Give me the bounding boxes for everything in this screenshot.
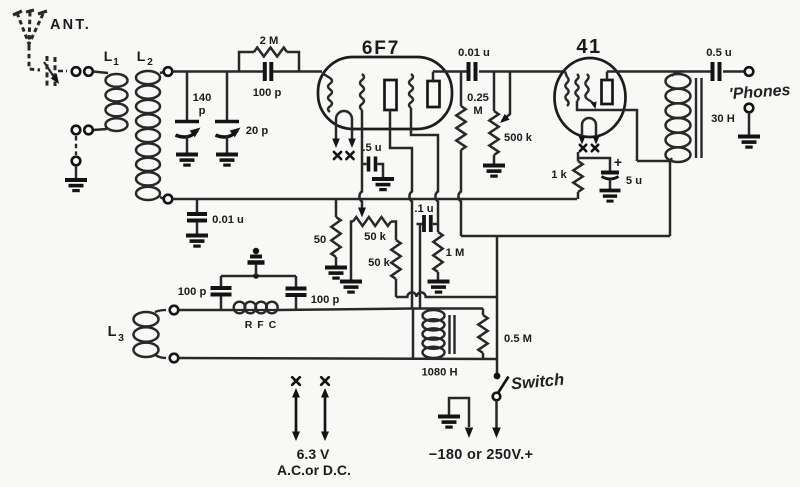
wire grid3 lead to coupling cap (411, 108, 438, 232)
wire B minus rail2 (461, 235, 670, 238)
svg-text:100 p: 100 p (178, 286, 207, 298)
wire grid2 bracket 41 (577, 101, 595, 110)
capacitor 100p left (220, 296, 223, 310)
core lines 1080H (448, 315, 450, 354)
ground B minus (438, 415, 460, 419)
svg-text:0.5 u: 0.5 u (706, 47, 732, 59)
wire rail L2 bottom to 1k cathode (173, 198, 578, 201)
wire top rail grid (173, 70, 240, 73)
svg-text:0.01 u: 0.01 u (458, 47, 490, 59)
wire W1 to B plus riser with hops (396, 292, 497, 297)
heater 41 (582, 118, 596, 132)
capacitor .5u bypass (362, 163, 367, 166)
svg-text:ANT.: ANT. (50, 17, 91, 33)
trimmer capacitor antenna series (47, 56, 55, 87)
resistor 50 ohm (335, 199, 338, 217)
grid G3 41 (585, 74, 588, 99)
capacitor 0.01u L2 bypass (196, 199, 199, 212)
svg-text:100 p: 100 p (253, 87, 282, 99)
wire antenna to L1 (93, 72, 108, 74)
grid G1 41 (565, 77, 568, 106)
node L2 top terminal (160, 72, 164, 73)
ground inverted chassis (253, 248, 259, 254)
wire 41 plate to phones cap (607, 70, 711, 73)
resistor 0.5M (482, 309, 485, 316)
transformer 1080H primary coil (423, 310, 445, 321)
wire grid entry 41 (565, 72, 567, 78)
svg-text:L: L (104, 48, 113, 64)
svg-text:500 k: 500 k (504, 132, 533, 144)
wire grid2 down to pot wiper (359, 110, 362, 209)
ground antenna coil (65, 178, 87, 182)
wire plate2 up to output rail (432, 72, 435, 82)
svg-text:1080 H: 1080 H (421, 367, 457, 379)
variable capacitor 140p (186, 72, 189, 121)
capacitor 100p right (295, 296, 298, 310)
svg-text:L: L (137, 48, 146, 64)
svg-text:2 M: 2 M (260, 35, 279, 47)
svg-text:100 p: 100 p (311, 294, 340, 306)
choke 30H coil (672, 71, 683, 76)
wire 1080H left riser (412, 309, 415, 358)
plate P2 6F7 (428, 81, 440, 107)
resistor 0.25M (460, 72, 463, 107)
svg-text:0.5 M: 0.5 M (504, 333, 532, 345)
terminal pair antenna input (72, 67, 81, 76)
ground phones (738, 135, 760, 139)
svg-text:0.25: 0.25 (467, 92, 489, 104)
plate P 41 (602, 80, 613, 104)
terminal phones top (745, 67, 754, 76)
resistor 1k bias (573, 161, 582, 192)
core lines 30H (695, 78, 697, 158)
grid G3 6F7 (409, 74, 413, 108)
ground 50k pot (340, 280, 362, 284)
capacitor .1u coupling (417, 223, 424, 226)
terminal pair L1 ground side (72, 126, 81, 135)
ground 1M (428, 280, 450, 284)
svg-text:50 k: 50 k (364, 231, 387, 243)
svg-text:1: 1 (113, 57, 119, 68)
switch lever (498, 377, 509, 394)
svg-text:41: 41 (576, 36, 601, 58)
heater supply arrows 6.3V (292, 377, 300, 385)
capacitor 100p grid (263, 62, 267, 81)
potentiometer 500k volume (493, 72, 496, 112)
svg-text:0.01 u: 0.01 u (212, 214, 244, 226)
svg-text:20 p: 20 p (246, 125, 269, 137)
antenna ANT (17, 12, 43, 46)
svg-text:50 k: 50 k (368, 257, 391, 269)
heater x marks 41 (580, 145, 586, 151)
wire B plus riser to switch (496, 236, 499, 376)
svg-text:5 u: 5 u (626, 175, 642, 187)
grid G2 41 (575, 74, 578, 101)
wire switch to B plus arrow (495, 401, 498, 429)
resistor 1M grid leak (433, 232, 442, 272)
ground 500k (483, 164, 505, 168)
wire L3 bottom to switch riser (179, 358, 498, 359)
coil RFC (234, 302, 246, 314)
capacitor 5u electrolytic (601, 171, 619, 175)
potentiometer 50k horizontal (353, 217, 391, 226)
tube 41 envelope U2 (555, 58, 626, 137)
coil L1 (106, 74, 128, 87)
resistor 50k lower (391, 240, 400, 279)
wiper arrow 500k (502, 72, 510, 122)
plate P1 6F7 (385, 80, 397, 110)
capacitor 0.5u phones (711, 62, 715, 81)
resistor R 2M grid leak (239, 52, 254, 72)
node L2 bottom terminal (160, 197, 164, 199)
svg-text:140: 140 (193, 92, 212, 104)
wire plate 41 up to output (606, 72, 609, 81)
svg-text:p: p (199, 105, 206, 117)
svg-text:A.C.or D.C.: A.C.or D.C. (277, 462, 351, 478)
svg-text:1 k: 1 k (551, 169, 567, 181)
terminal L3 bottom (170, 354, 179, 363)
wire B minus bracket (449, 398, 469, 427)
svg-text:.5 u: .5 u (362, 142, 381, 154)
svg-text:.1 u: .1 u (414, 203, 433, 215)
svg-text:L: L (108, 324, 117, 340)
cathode arrow 41 (587, 99, 595, 106)
wire RFC to 1080H top (278, 309, 413, 311)
terminal L3 top (170, 306, 179, 315)
wire cathode to 1k and 5u (577, 152, 580, 161)
wire plate2 rail to 41 grid (433, 70, 467, 73)
grid G2 6F7 (360, 74, 364, 110)
ground 0.01u (186, 234, 208, 238)
svg-text:R F C: R F C (245, 319, 277, 331)
wire 1080H top (413, 307, 483, 310)
svg-text:6.3 V: 6.3 V (297, 446, 330, 462)
capacitor 0.01u interstage (467, 62, 471, 81)
wire choke bottom junction (637, 161, 670, 236)
wire L3 top to RFC (179, 309, 235, 312)
svg-text:+: + (614, 154, 622, 170)
svg-text:6F7: 6F7 (362, 38, 400, 59)
svg-text:50: 50 (314, 234, 326, 246)
wire cathode tap bracket (221, 275, 296, 278)
svg-text:3: 3 (118, 332, 124, 344)
svg-text:1 M: 1 M (446, 247, 465, 259)
coil L2 (136, 71, 160, 84)
tube 6F7 envelope U1 (318, 57, 452, 129)
heater 6F7 with leads (336, 111, 352, 128)
terminal phones bottom (745, 104, 754, 113)
wire plate1 lead down (390, 110, 412, 308)
ground 5u (600, 189, 621, 193)
wire dashed to ground terminal (75, 136, 77, 155)
grid G1 6F7 (328, 78, 332, 112)
wire .1u left lead down to 1080H (419, 224, 422, 308)
ground 50 ohm (325, 266, 347, 270)
wire screen 41 to choke bottom (595, 110, 637, 161)
heater x marks 6F7 (334, 152, 341, 159)
wire grid1 entry (322, 73, 330, 78)
wire L1 bottom to terminals (93, 129, 107, 130)
variable capacitor 20p (226, 72, 229, 121)
svg-text:30 H: 30 H (711, 113, 735, 125)
svg-text:2: 2 (147, 57, 153, 68)
svg-text:M: M (473, 105, 482, 117)
svg-text:−180 or 250V.+: −180 or 250V.+ (429, 447, 533, 463)
node switch top (494, 373, 501, 380)
